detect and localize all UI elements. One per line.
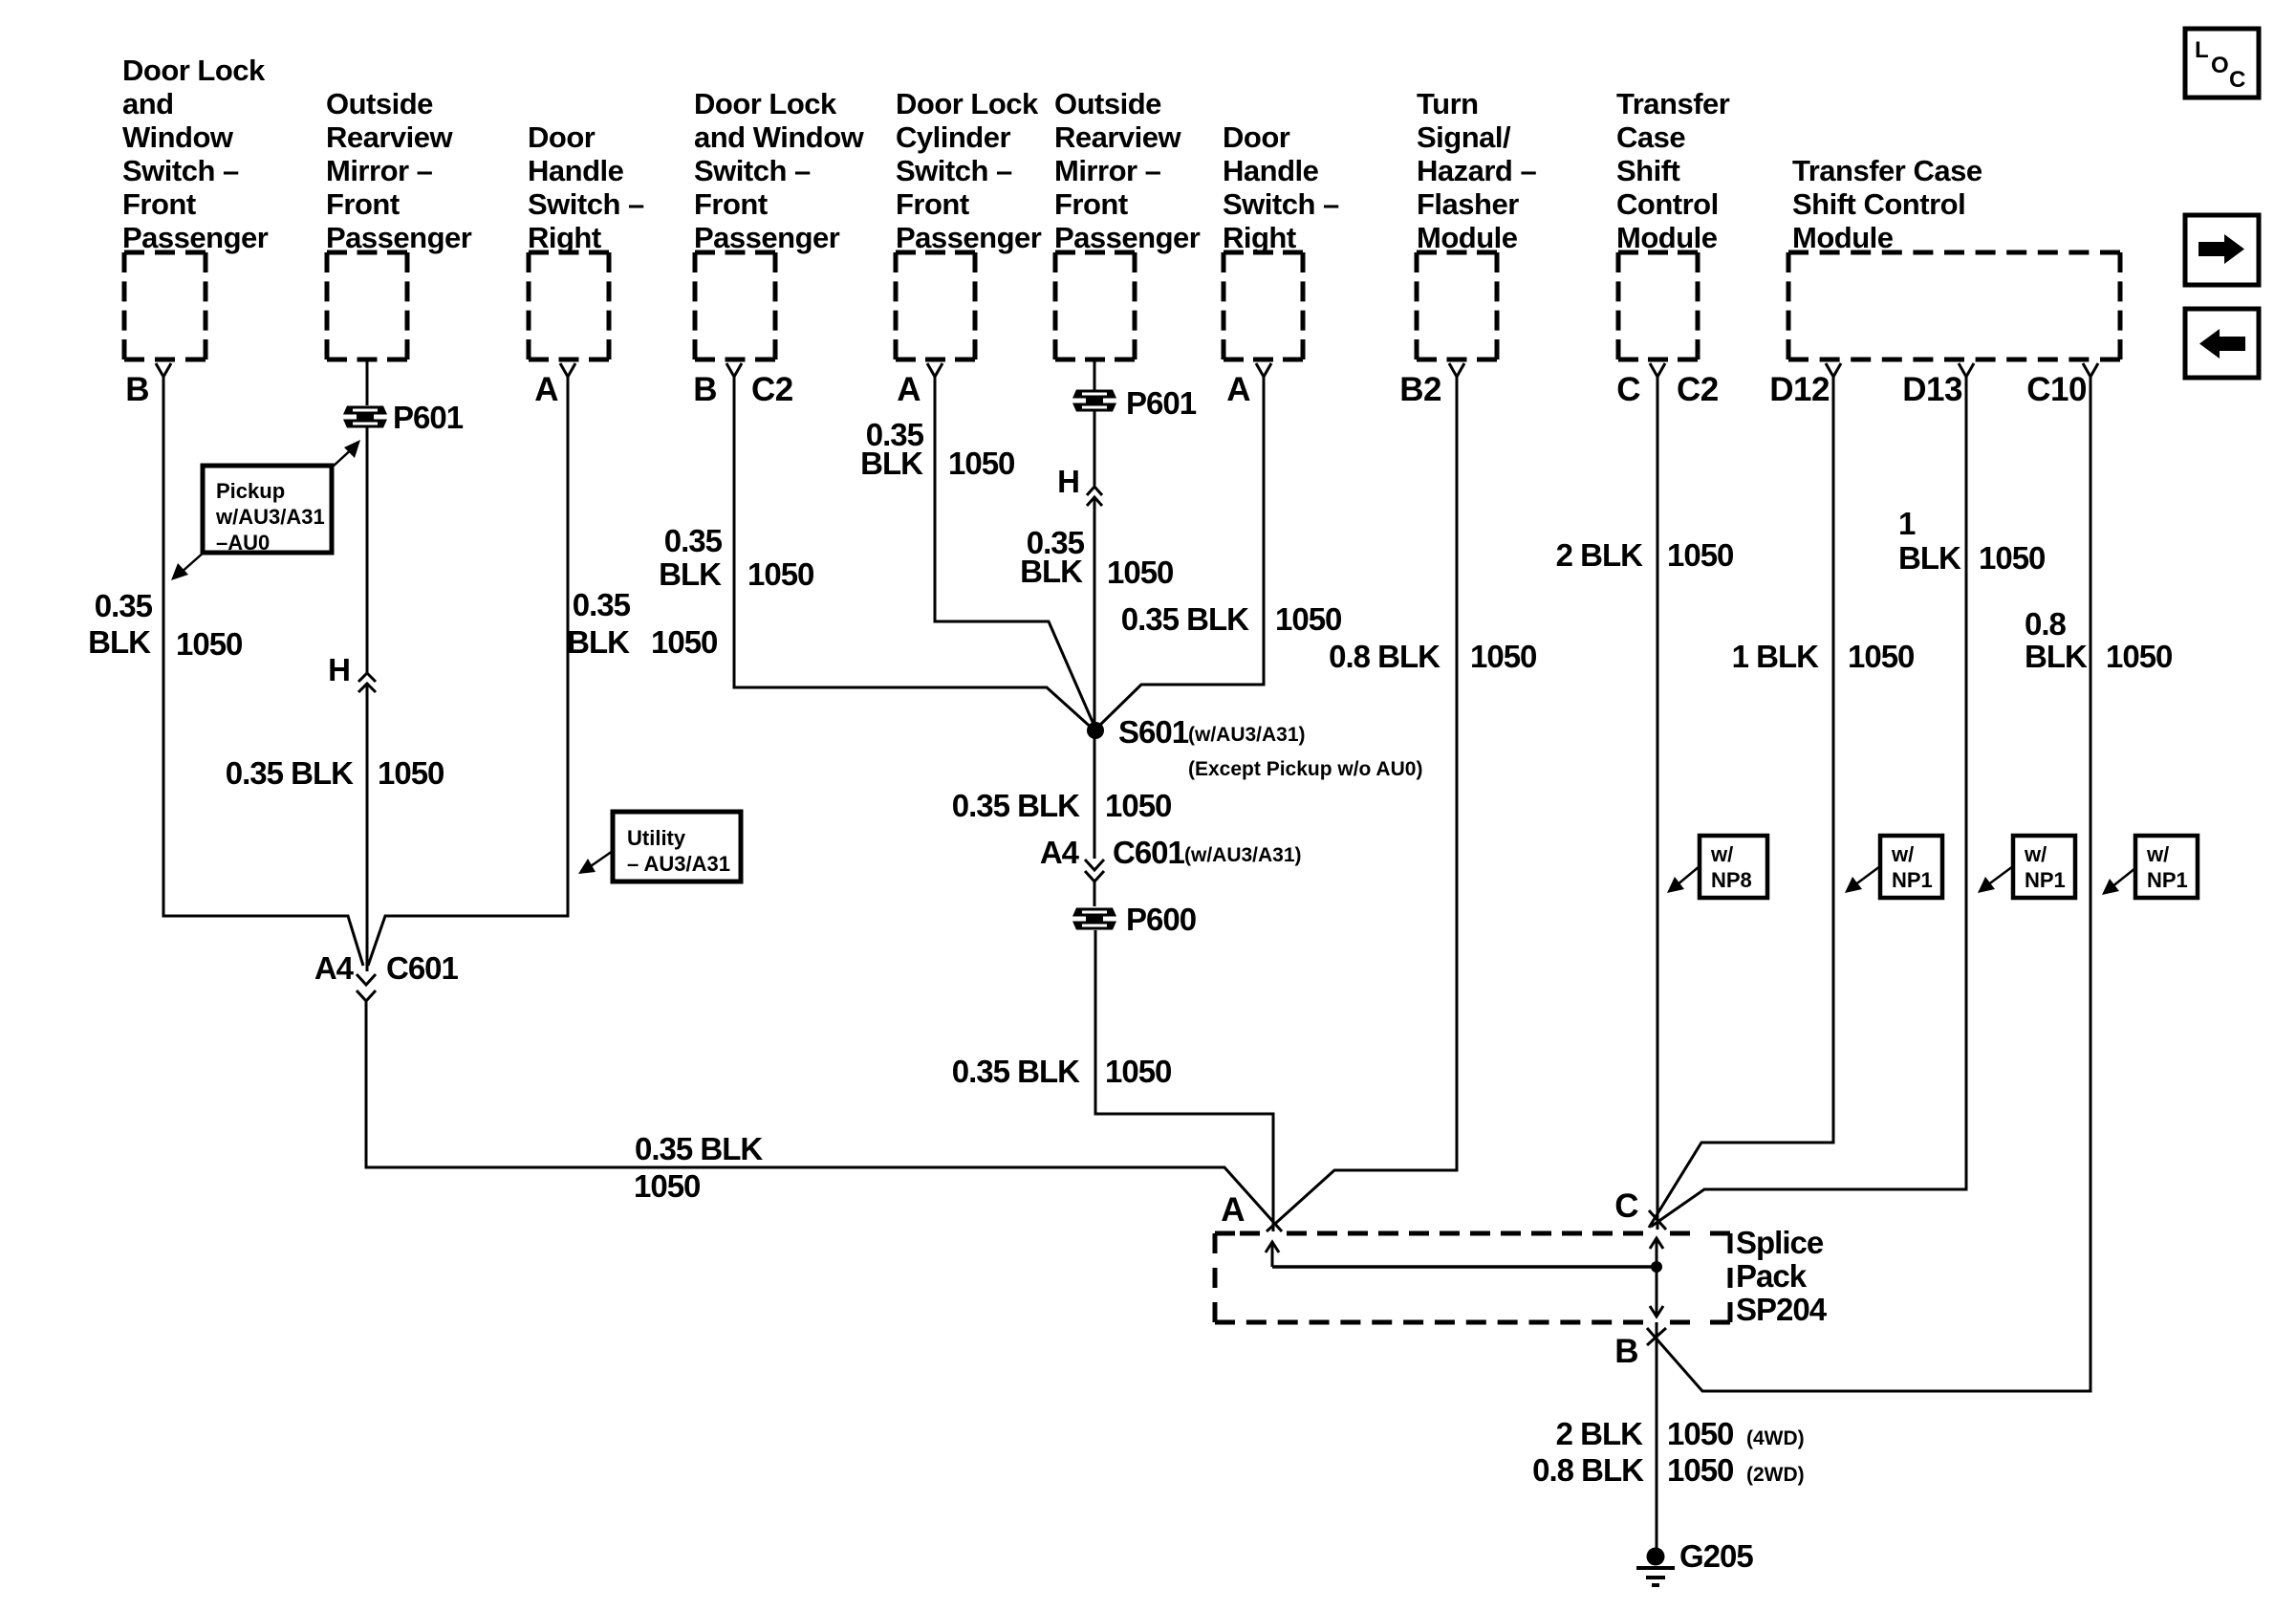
svg-text:Switch –: Switch –	[896, 154, 1012, 187]
svg-text:Module: Module	[1792, 221, 1894, 254]
label Transfer Case Shift Control Module (wide box)	[1792, 154, 1982, 254]
svg-text:P601: P601	[1126, 385, 1197, 421]
svg-text:BLK: BLK	[2025, 639, 2088, 674]
svg-text:0.35 BLK: 0.35 BLK	[952, 1054, 1080, 1089]
wire W2 from U2 to P601	[366, 360, 369, 405]
svg-text:0.8 BLK: 0.8 BLK	[1532, 1452, 1644, 1488]
svg-text:1050: 1050	[378, 755, 444, 791]
svg-text:B: B	[693, 371, 717, 408]
svg-text:C2: C2	[1677, 371, 1719, 408]
svg-text:BLK: BLK	[567, 624, 630, 660]
svg-text:A: A	[1226, 371, 1250, 408]
internal down arrow above point B	[1650, 1267, 1663, 1317]
svg-text:Switch –: Switch –	[122, 154, 239, 187]
svg-text:Shift Control: Shift Control	[1792, 187, 1965, 221]
svg-text:Cylinder: Cylinder	[896, 120, 1010, 154]
svg-text:Front: Front	[326, 187, 400, 221]
svg-text:Door Lock: Door Lock	[122, 54, 266, 87]
callout arrow w/NP1 to C10 wire	[2102, 868, 2135, 895]
wire W6 from P601 down to H chevron	[1094, 411, 1096, 486]
wire W3 from U3 pin A down, left, into C601 junction	[368, 377, 568, 966]
box U2 Outside Rearview Mirror - Front Passenger	[327, 250, 407, 255]
box U9 Transfer Case Shift Control Module	[1618, 250, 1698, 255]
svg-text:BLK: BLK	[88, 624, 151, 660]
svg-text:0.35 BLK: 0.35 BLK	[1121, 601, 1249, 637]
junction dot on bus bar	[1651, 1261, 1662, 1273]
svg-text:w/: w/	[2024, 842, 2047, 866]
svg-text:– AU3/A31: – AU3/A31	[627, 852, 730, 876]
pin fork B/C2 of U4	[726, 363, 742, 377]
svg-text:1050: 1050	[1667, 537, 1733, 573]
wire W5 from U5 pin A down, right, to S601	[935, 377, 1095, 729]
crossing stub at splice point B	[1647, 1328, 1666, 1345]
svg-text:Right: Right	[1223, 221, 1296, 254]
svg-text:Outside: Outside	[326, 87, 433, 120]
pin fork D13 of U10	[1959, 363, 1974, 377]
callout arrow w/NP1 to D12 wire	[1845, 866, 1880, 893]
svg-text:G205: G205	[1679, 1538, 1753, 1574]
svg-text:Handle: Handle	[528, 154, 624, 187]
label Turn Signal/Hazard - Flasher Module	[1417, 87, 1536, 254]
svg-text:B2: B2	[1399, 371, 1441, 408]
box U10 Transfer Case Shift Control Module wide	[1788, 250, 2120, 255]
svg-text:(4WD): (4WD)	[1746, 1427, 1805, 1449]
svg-text:Splice: Splice	[1736, 1225, 1824, 1260]
svg-text:1050: 1050	[176, 626, 242, 662]
svg-text:Front: Front	[122, 187, 196, 221]
internal up arrow below point C	[1650, 1238, 1663, 1267]
svg-text:Passenger: Passenger	[122, 221, 269, 254]
svg-text:BLK: BLK	[659, 556, 722, 592]
pin fork C/C2 of U9	[1650, 363, 1665, 377]
svg-text:BLK: BLK	[1020, 554, 1083, 589]
svg-text:SP204: SP204	[1736, 1292, 1828, 1327]
label Transfer Case Shift Control Module (small box)	[1616, 87, 1730, 254]
svg-text:Transfer Case: Transfer Case	[1792, 154, 1982, 187]
svg-text:1050: 1050	[1979, 540, 2045, 576]
svg-text:1050: 1050	[1275, 601, 1341, 637]
svg-text:Door Lock: Door Lock	[896, 87, 1039, 120]
svg-text:and: and	[122, 87, 174, 120]
svg-text:1050: 1050	[2106, 639, 2172, 674]
label Door Handle Switch - Right (left)	[528, 120, 644, 254]
svg-text:0.35: 0.35	[573, 587, 631, 622]
svg-text:1 BLK: 1 BLK	[1732, 639, 1820, 674]
svg-text:2 BLK: 2 BLK	[1556, 1416, 1644, 1451]
svg-text:1050: 1050	[747, 556, 813, 592]
svg-text:Window: Window	[122, 120, 234, 154]
callout arrow Pickup to P601 wire	[332, 440, 360, 468]
splice pack dashed box	[1215, 1233, 1730, 1322]
svg-text:C10: C10	[2026, 371, 2087, 408]
pin fork A of U3	[560, 363, 575, 377]
pin fork A of U5	[927, 363, 942, 377]
wire W6 from C601 (2nd) to P600	[1094, 882, 1096, 906]
wire W1 from U1 pin B down, right, into C601 junction	[163, 377, 363, 966]
wire W7 from U7 pin A down, left, to S601	[1096, 377, 1264, 729]
svg-text:H: H	[1057, 464, 1079, 499]
box U5 Door Lock Cylinder Switch - Front Passenger	[896, 250, 975, 255]
svg-text:A: A	[534, 371, 558, 408]
svg-text:0.35 BLK: 0.35 BLK	[226, 755, 354, 791]
pin fork A of U7	[1256, 363, 1271, 377]
callout arrow w/NP8 to W9	[1667, 866, 1700, 893]
svg-text:NP8: NP8	[1711, 868, 1752, 892]
svg-text:Passenger: Passenger	[1054, 221, 1201, 254]
svg-text:A: A	[1221, 1191, 1245, 1229]
svg-text:P600: P600	[1126, 902, 1196, 937]
svg-text:1050: 1050	[1848, 639, 1914, 674]
label Door Lock and Window Switch - Front Passenger	[122, 54, 269, 254]
svg-text:1050: 1050	[1107, 555, 1173, 590]
wire W2 from H chevron down to C601 junction	[366, 683, 369, 971]
box U7 Door Handle Switch - Right	[1224, 250, 1303, 255]
wire W6 from S601 down to C601 (2nd) connector	[1094, 730, 1096, 859]
box U3 Door Handle Switch - Right	[529, 250, 609, 255]
wire D13 from U10 down, left, to splice point C	[1651, 377, 1966, 1227]
svg-text:A: A	[897, 371, 921, 408]
svg-text:A4: A4	[314, 950, 355, 986]
pin fork B of U1	[156, 363, 171, 377]
svg-text:Switch –: Switch –	[1223, 187, 1339, 221]
svg-text:Mirror –: Mirror –	[326, 154, 433, 187]
wire from splice B exit down to ground G205	[1656, 1322, 1658, 1548]
svg-text:BLK: BLK	[1898, 540, 1961, 576]
svg-text:Module: Module	[1616, 221, 1718, 254]
svg-text:Hazard –: Hazard –	[1417, 154, 1536, 187]
svg-text:P601: P601	[393, 400, 464, 435]
svg-text:0.35: 0.35	[95, 588, 153, 623]
pin fork C10 of U10	[2083, 363, 2098, 377]
callout arrow Pickup to W1	[171, 552, 205, 580]
wire W6 from H chevron down to S601	[1094, 498, 1096, 730]
label Splice Pack SP204	[1736, 1225, 1828, 1327]
svg-text:Right: Right	[528, 221, 601, 254]
wire C10 from U10 down, left, up-diagonal to splice point B	[1647, 377, 2090, 1391]
svg-text:C: C	[1616, 371, 1640, 408]
svg-text:Control: Control	[1616, 187, 1719, 221]
svg-text:Utility: Utility	[627, 826, 686, 850]
wire W6 from U6 to P601 (2nd)	[1094, 360, 1096, 390]
label Outside Rearview Mirror - Front Passenger (2nd)	[1054, 87, 1201, 254]
svg-text:Front: Front	[1054, 187, 1128, 221]
splice pack internal bus bar	[1272, 1265, 1657, 1269]
svg-text:1050: 1050	[1470, 639, 1536, 674]
svg-text:S601: S601	[1118, 714, 1189, 750]
svg-text:1050: 1050	[651, 624, 717, 660]
callout arrow Utility to W3 area	[578, 851, 613, 874]
svg-text:Flasher: Flasher	[1417, 187, 1519, 221]
svg-text:H: H	[328, 652, 350, 687]
svg-text:O: O	[2211, 53, 2229, 78]
svg-text:Door Lock: Door Lock	[694, 87, 837, 120]
pin fork B2 of U8	[1449, 363, 1464, 377]
box U4 Door Lock and Window Switch - Front Passenger	[695, 250, 775, 255]
svg-text:1050: 1050	[1105, 1054, 1171, 1089]
svg-text:A4: A4	[1040, 835, 1080, 870]
svg-text:and Window: and Window	[694, 120, 865, 154]
pin fork D12 of U10	[1826, 363, 1841, 377]
svg-text:Door: Door	[1223, 120, 1290, 154]
svg-text:NP1: NP1	[2025, 868, 2066, 892]
svg-text:Front: Front	[694, 187, 768, 221]
svg-text:1050: 1050	[634, 1168, 700, 1204]
svg-text:0.8 BLK: 0.8 BLK	[1329, 639, 1440, 674]
svg-text:(2WD): (2WD)	[1746, 1464, 1805, 1486]
crossing stub at splice point C	[1649, 1210, 1666, 1230]
svg-text:w/: w/	[2146, 842, 2169, 866]
svg-text:2 BLK: 2 BLK	[1556, 537, 1644, 573]
svg-text:C: C	[2229, 67, 2245, 93]
callout arrow w/NP1 to D13 wire	[1978, 866, 2013, 893]
svg-text:1050: 1050	[1667, 1416, 1733, 1451]
wire W8 from U8 pin B2 down, left, to splice point A	[1267, 377, 1457, 1231]
box U6 Outside Rearview Mirror - Front Passenger	[1055, 250, 1135, 255]
svg-text:Pickup: Pickup	[216, 479, 285, 503]
svg-text:(w/AU3/A31): (w/AU3/A31)	[1188, 724, 1306, 746]
svg-text:D12: D12	[1769, 371, 1830, 408]
svg-text:Rearview: Rearview	[326, 120, 454, 154]
svg-text:C2: C2	[751, 371, 793, 408]
svg-text:0.35 BLK: 0.35 BLK	[635, 1131, 763, 1166]
svg-text:Mirror –: Mirror –	[1054, 154, 1161, 187]
svg-text:BLK: BLK	[860, 446, 923, 481]
wire D12 from U10 down, left, to splice point C	[1649, 377, 1833, 1228]
svg-text:L: L	[2195, 37, 2209, 63]
svg-text:Rearview: Rearview	[1054, 120, 1182, 154]
svg-text:Outside: Outside	[1054, 87, 1161, 120]
svg-text:1050: 1050	[948, 446, 1014, 481]
svg-text:D13: D13	[1902, 371, 1962, 408]
label Door Handle Switch - Right (2nd)	[1223, 120, 1339, 254]
svg-text:Front: Front	[896, 187, 969, 221]
box U8 Turn Signal/Hazard Flasher Module	[1417, 250, 1497, 255]
svg-text:0.8: 0.8	[2025, 606, 2067, 642]
svg-text:1050: 1050	[1105, 788, 1171, 823]
svg-text:Passenger: Passenger	[326, 221, 472, 254]
svg-text:Case: Case	[1616, 120, 1685, 154]
svg-text:Passenger: Passenger	[896, 221, 1042, 254]
svg-text:Handle: Handle	[1223, 154, 1319, 187]
svg-text:Turn: Turn	[1417, 87, 1479, 120]
svg-text:Shift: Shift	[1616, 154, 1680, 187]
svg-text:NP1: NP1	[1892, 868, 1933, 892]
svg-text:C: C	[1614, 1187, 1638, 1225]
svg-text:NP1: NP1	[2147, 868, 2188, 892]
svg-text:(w/AU3/A31): (w/AU3/A31)	[1184, 844, 1302, 866]
label Outside Rearview Mirror - Front Passenger (left)	[326, 87, 472, 254]
svg-text:1050: 1050	[1667, 1452, 1733, 1488]
svg-text:Door: Door	[528, 120, 596, 154]
svg-text:–AU0: –AU0	[216, 531, 270, 555]
svg-text:C601: C601	[1113, 835, 1185, 870]
internal up arrow below point A	[1266, 1242, 1279, 1267]
wire W2 from P601 to H off-page chevron	[366, 427, 369, 673]
svg-text:Transfer: Transfer	[1616, 87, 1730, 120]
svg-text:Module: Module	[1417, 221, 1518, 254]
svg-text:Passenger: Passenger	[694, 221, 840, 254]
svg-text:(Except Pickup w/o AU0): (Except Pickup w/o AU0)	[1188, 758, 1422, 780]
wire W9 from U9 pin C down to splice point C	[1657, 377, 1659, 1230]
svg-text:C601: C601	[386, 950, 459, 986]
svg-text:w/: w/	[1710, 842, 1733, 866]
wire W6 from P600 down, right, down to splice point A	[1095, 930, 1273, 1231]
svg-text:0.35 BLK: 0.35 BLK	[952, 788, 1080, 823]
svg-text:Pack: Pack	[1736, 1258, 1808, 1294]
label Door Lock Cylinder Switch - Front Passenger	[896, 87, 1042, 254]
svg-text:Switch –: Switch –	[694, 154, 811, 187]
label Door Lock and Window Switch - Front Passenger (2nd)	[694, 87, 865, 254]
svg-text:1: 1	[1898, 506, 1916, 541]
svg-text:Signal/: Signal/	[1417, 120, 1511, 154]
wire below C601 junction down then right to splice point A	[366, 1001, 1282, 1231]
svg-text:w/AU3/A31: w/AU3/A31	[215, 505, 325, 529]
svg-text:B: B	[1614, 1333, 1638, 1370]
box U1 Door Lock and Window Switch - Front Passenger	[124, 250, 206, 255]
svg-text:B: B	[125, 371, 149, 408]
svg-text:0.35: 0.35	[664, 523, 723, 558]
svg-text:Switch –: Switch –	[528, 187, 644, 221]
svg-text:w/: w/	[1891, 842, 1914, 866]
wire W4 from U4 pin B down, right, to S601	[734, 377, 1094, 730]
